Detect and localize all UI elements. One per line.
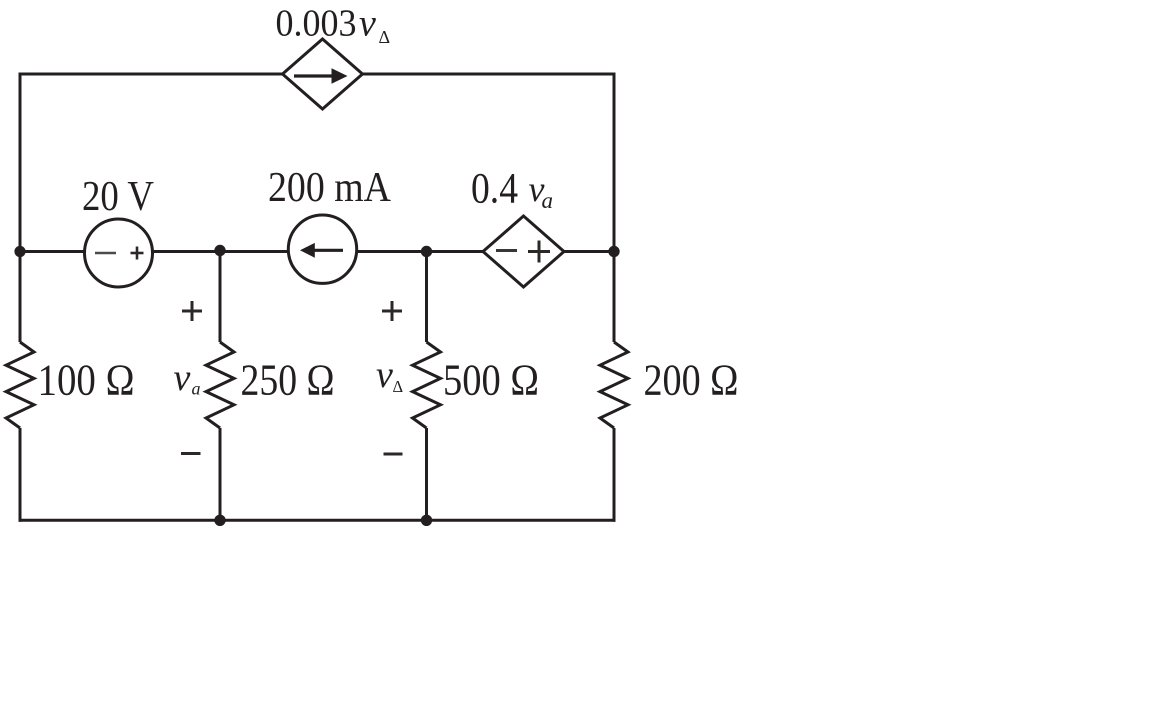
polarity minus inside 20 V (95, 252, 116, 255)
label 0.003 vΔ (276, 3, 391, 48)
wire: bottom horizontal (19, 519, 616, 522)
dependent current source 0.003vΔ (diamond) (283, 39, 363, 109)
junction dot: left middle node (14, 246, 25, 257)
plus mark (va) (182, 301, 202, 321)
svg-text:500 Ω: 500 Ω (443, 356, 539, 405)
wire: left vertical (top loop) (19, 73, 22, 254)
svg-text:200 Ω: 200 Ω (644, 356, 739, 405)
node label vΔ (376, 354, 403, 396)
resistor 500 Ω (zigzag) (413, 342, 441, 428)
svg-text:v: v (376, 354, 393, 396)
junction dot: right middle node (608, 246, 619, 257)
dependent voltage source 0.4va (diamond) (483, 216, 564, 287)
svg-text:Δ: Δ (379, 27, 391, 47)
current source 200 mA (circle) (288, 215, 356, 283)
wire: top horizontal (20, 73, 614, 76)
wire: middle horizontal bus (20, 250, 614, 253)
svg-text:Δ: Δ (393, 377, 404, 396)
resistor 250 Ω (zigzag) (206, 342, 234, 428)
wire: 500Ω branch vertical above (425, 252, 428, 343)
junction dot: bottom of 250Ω (214, 515, 225, 526)
wire: 250Ω branch vertical below (219, 428, 222, 520)
wire: right vertical below 200Ω (613, 428, 616, 522)
svg-text:0.4: 0.4 (471, 166, 518, 213)
polarity plus inside 20 V (131, 247, 144, 260)
svg-text:0.003: 0.003 (276, 3, 357, 45)
svg-text:v: v (174, 357, 191, 399)
voltage source 20 V (circle) (85, 219, 153, 287)
junction dot: node a (top of 250Ω) (214, 245, 225, 256)
plus mark (vΔ) (382, 301, 402, 321)
resistor 100 Ω (zigzag) (6, 342, 34, 428)
wire: right vertical above 200Ω (613, 252, 616, 343)
svg-text:v: v (359, 3, 376, 45)
minus mark (va) (181, 452, 201, 455)
arrow inside 0.003vΔ (294, 68, 348, 84)
node label va (174, 357, 201, 399)
polarity plus inside 0.4va (528, 241, 550, 263)
polarity minus inside 0.4va (496, 249, 517, 252)
svg-text:250 Ω: 250 Ω (241, 356, 335, 405)
junction dot: bottom of 500Ω (421, 515, 432, 526)
wire: left vertical above 100Ω (19, 252, 22, 343)
svg-text:20 V: 20 V (82, 174, 154, 220)
svg-text:a: a (192, 379, 201, 399)
wire: 250Ω branch vertical above (219, 252, 222, 343)
wire: left vertical below 100Ω (19, 428, 22, 522)
wire: right vertical (top loop) (613, 73, 616, 254)
minus mark (vΔ) (384, 453, 403, 456)
label 0.4 va (471, 166, 553, 214)
svg-text:a: a (542, 188, 554, 213)
resistor 200 Ω (zigzag) (600, 342, 628, 428)
wire: 500Ω branch vertical below (425, 428, 428, 520)
arrow inside 200 mA (300, 243, 343, 258)
junction dot: node Δ (top of 500Ω) (421, 246, 432, 257)
svg-text:100 Ω: 100 Ω (38, 356, 135, 405)
svg-text:200 mA: 200 mA (268, 165, 392, 211)
